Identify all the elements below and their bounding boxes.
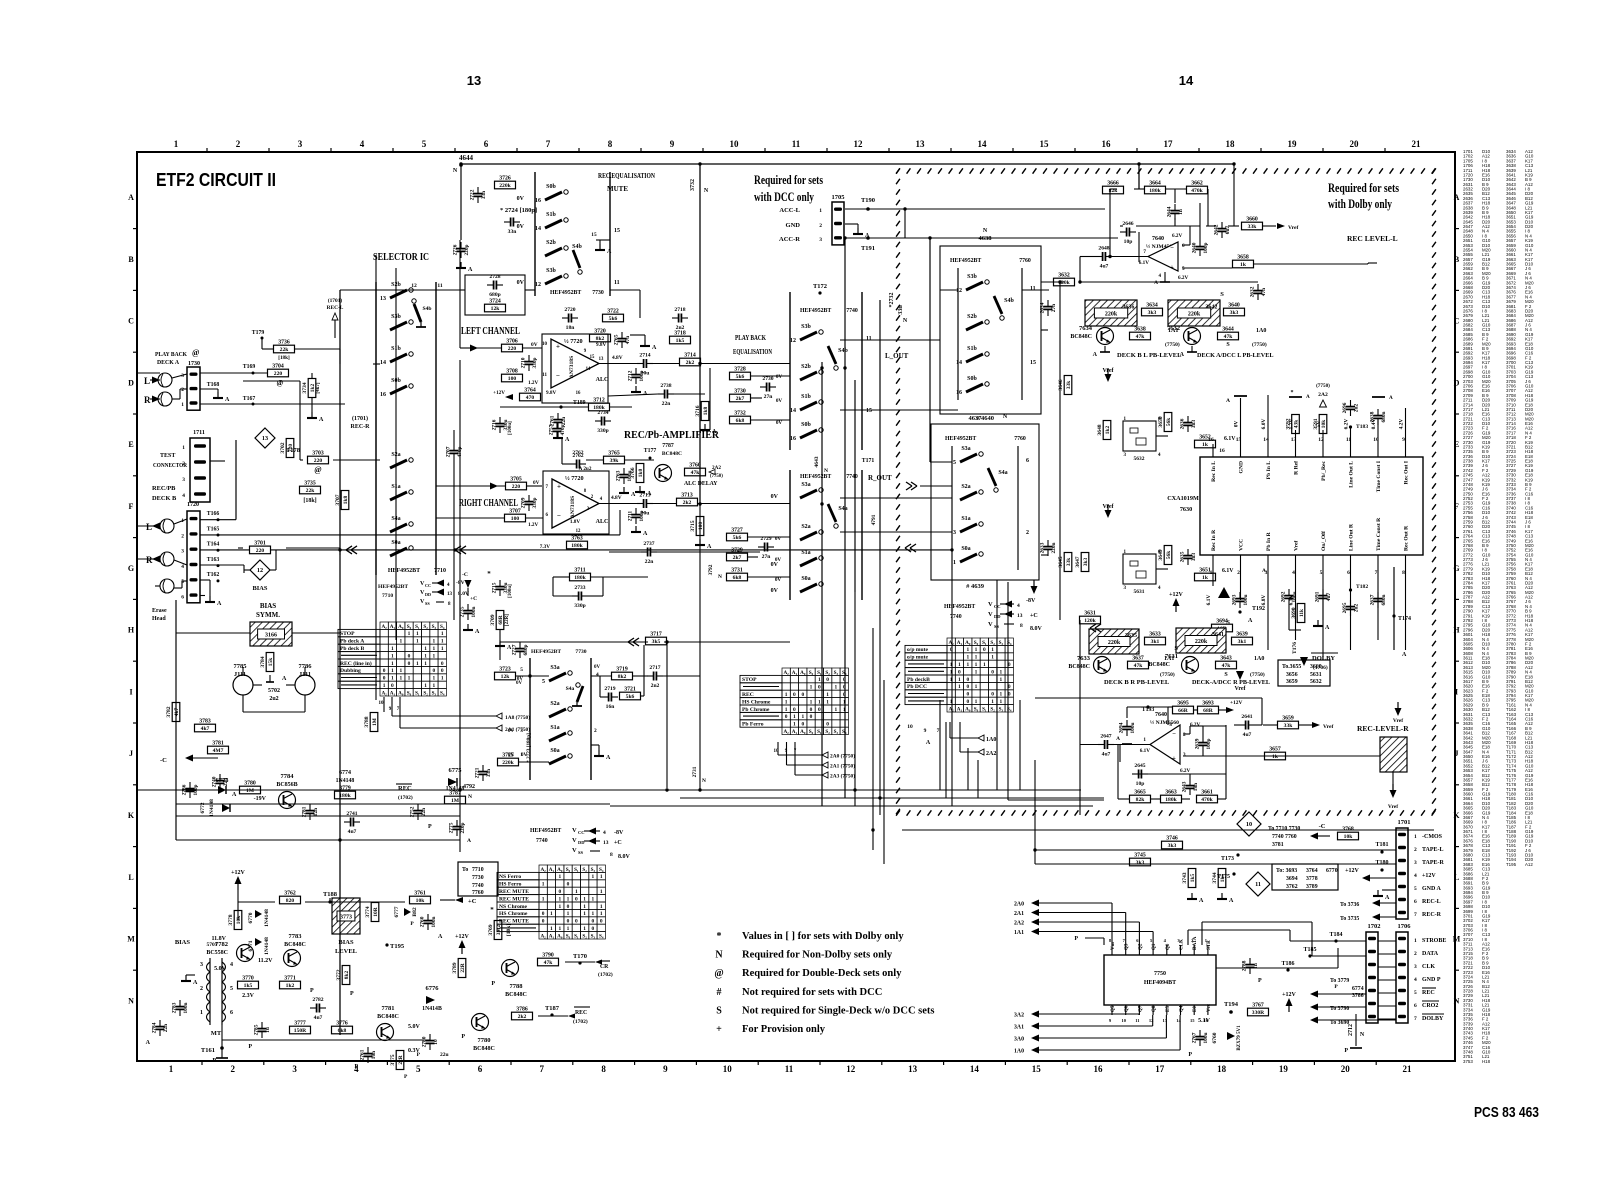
svg-text:2: 2 xyxy=(182,461,185,467)
svg-text:R_OUT: R_OUT xyxy=(868,474,892,482)
svg-text:S₂: S₂ xyxy=(582,867,587,873)
verticals below 4637 bank xyxy=(939,700,941,790)
svg-text:ALC: ALC xyxy=(596,377,609,383)
cap 2733 330p xyxy=(578,592,580,601)
hatched pot 3641 xyxy=(1176,628,1226,653)
svg-text:3M2: 3M2 xyxy=(496,924,502,935)
svg-text:1: 1 xyxy=(416,661,419,667)
play head L deck B xyxy=(160,519,174,533)
resistor 3725 220k xyxy=(498,758,519,766)
svg-text:S1a: S1a xyxy=(550,725,559,731)
svg-text:8.0V: 8.0V xyxy=(1030,626,1043,632)
svg-text:22k: 22k xyxy=(280,347,290,353)
svg-text:0: 0 xyxy=(966,684,969,690)
svg-text:7: 7 xyxy=(937,728,940,734)
svg-text:12: 12 xyxy=(1149,1018,1154,1023)
svg-text:1720: 1720 xyxy=(187,502,199,508)
svg-text:22n: 22n xyxy=(645,559,655,565)
svg-text:A₂: A₂ xyxy=(540,933,546,939)
cap 2643b 18n xyxy=(1186,785,1195,787)
svg-text:1: 1 xyxy=(433,639,436,645)
svg-text:3635: 3635 xyxy=(1125,633,1137,639)
svg-text:5: 5 xyxy=(422,139,427,149)
svg-text:180k: 180k xyxy=(571,543,583,549)
switch S0b mute xyxy=(545,192,562,200)
switch S4a mid xyxy=(577,686,583,702)
svg-text:1: 1 xyxy=(958,662,961,668)
svg-text:330p: 330p xyxy=(597,428,609,434)
svg-text:A: A xyxy=(468,267,473,273)
wires osc xyxy=(1156,435,1168,437)
svg-text:2643: 2643 xyxy=(1182,781,1188,792)
svg-text:8k2: 8k2 xyxy=(344,971,350,980)
svg-text:A: A xyxy=(128,193,134,202)
svg-text:R Ref: R Ref xyxy=(1294,461,1300,475)
svg-text:1: 1 xyxy=(424,653,427,659)
svg-text:RIGHT CHANNEL: RIGHT CHANNEL xyxy=(459,498,518,509)
svg-text:2A1 (7750): 2A1 (7750) xyxy=(505,726,530,733)
svg-text:2712: 2712 xyxy=(628,370,634,381)
svg-text:1N414B: 1N414B xyxy=(422,1006,442,1012)
svg-text:0V: 0V xyxy=(1234,421,1240,428)
svg-text:0: 0 xyxy=(542,911,545,917)
svg-text:1: 1 xyxy=(174,139,179,149)
svg-text:A: A xyxy=(1454,193,1460,202)
svg-text:12k: 12k xyxy=(501,674,511,680)
mute bank rails 7730 xyxy=(534,172,536,296)
svg-text:Time Const I: Time Const I xyxy=(1376,461,1382,492)
svg-text:Vref: Vref xyxy=(1102,368,1114,374)
svg-text:+12V: +12V xyxy=(455,934,469,940)
svg-text:G: G xyxy=(128,564,134,573)
arrow up to REC-L xyxy=(334,320,336,338)
svg-text:1: 1 xyxy=(600,904,603,910)
svg-text:BC848C: BC848C xyxy=(1148,662,1170,668)
resistor 3736 22k xyxy=(274,345,295,353)
svg-text:9: 9 xyxy=(924,728,927,734)
svg-text:1: 1 xyxy=(1414,834,1417,840)
svg-text:P: P xyxy=(310,988,314,994)
svg-text:4k7: 4k7 xyxy=(174,708,180,717)
svg-text:J111: J111 xyxy=(234,671,246,678)
svg-text:* 2723 [180p]: * 2723 [180p] xyxy=(526,733,532,763)
svg-text:1: 1 xyxy=(1414,938,1417,944)
svg-text:S₀: S₀ xyxy=(566,933,571,939)
svg-text:3646: 3646 xyxy=(1058,379,1064,390)
svg-text:K: K xyxy=(128,811,135,820)
svg-text:DOLBY: DOLBY xyxy=(1422,1016,1444,1022)
transistor 7783 BC848C xyxy=(284,950,301,967)
svg-text:3703: 3703 xyxy=(312,451,324,457)
svg-text:T174: T174 xyxy=(1398,616,1411,622)
svg-text:3664: 3664 xyxy=(1149,181,1161,187)
svg-text:47u: 47u xyxy=(625,336,631,344)
svg-text:6.2V: 6.2V xyxy=(1180,768,1190,774)
svg-text:10n: 10n xyxy=(371,1051,377,1059)
svg-text:A: A xyxy=(643,531,648,537)
wires deck A to 1730 xyxy=(172,374,187,378)
svg-text:15: 15 xyxy=(1236,437,1242,443)
svg-text:120k: 120k xyxy=(1084,618,1096,624)
svg-text:1k0: 1k0 xyxy=(638,469,644,478)
svg-text:+12V: +12V xyxy=(231,870,245,876)
svg-text:12: 12 xyxy=(956,288,962,294)
svg-text:S₂: S₂ xyxy=(423,624,428,630)
svg-text:To.3655: To.3655 xyxy=(1282,664,1301,670)
svg-text:2728: 2728 xyxy=(489,274,500,280)
svg-text:3k3: 3k3 xyxy=(1136,860,1145,866)
svg-text:T166: T166 xyxy=(207,511,220,517)
svg-text:CLK: CLK xyxy=(1180,939,1185,950)
svg-text:2720: 2720 xyxy=(564,307,575,313)
svg-text:1: 1 xyxy=(819,208,822,214)
svg-text:7710: 7710 xyxy=(472,867,484,873)
resistor 3665b 82k xyxy=(1130,795,1151,803)
svg-text:1: 1 xyxy=(826,692,829,698)
resistor 3734 1k2 vertical xyxy=(308,379,316,398)
svg-text:3713: 3713 xyxy=(681,493,693,499)
svg-text:2A2: 2A2 xyxy=(986,751,996,757)
switch S0a 4637 xyxy=(960,554,977,562)
svg-text:0: 0 xyxy=(441,661,444,667)
svg-text:0V: 0V xyxy=(776,398,783,404)
svg-text:6: 6 xyxy=(230,1010,233,1016)
svg-text:+: + xyxy=(716,1024,722,1035)
svg-text:Pb/_Rec: Pb/_Rec xyxy=(1321,460,1327,480)
svg-text:N: N xyxy=(128,996,134,1005)
svg-text:0: 0 xyxy=(383,668,386,674)
svg-text:P: P xyxy=(428,824,432,830)
resistor 3781 4M7 xyxy=(208,746,229,754)
svg-text:BIAS: BIAS xyxy=(338,939,354,946)
resistor 3659 33k xyxy=(1278,721,1299,729)
svg-text:220k: 220k xyxy=(1195,639,1208,645)
svg-text:4643: 4643 xyxy=(814,456,820,467)
svg-text:S4b: S4b xyxy=(838,348,848,354)
svg-text:-8V: -8V xyxy=(614,830,624,836)
svg-text:1: 1 xyxy=(592,911,595,917)
svg-text:82k: 82k xyxy=(1136,797,1146,803)
svg-text:0: 0 xyxy=(575,896,578,902)
svg-text:1: 1 xyxy=(785,692,788,698)
svg-text:4637: 4637 xyxy=(969,415,983,422)
resistor 3722 5k6 xyxy=(603,314,624,322)
svg-text:S₂: S₂ xyxy=(582,933,587,939)
svg-text:3731: 3731 xyxy=(731,568,743,574)
svg-text:27n: 27n xyxy=(1051,304,1057,312)
switch S1b 4638 xyxy=(966,354,983,362)
svg-text:12: 12 xyxy=(535,282,541,288)
svg-text:1A0: 1A0 xyxy=(986,737,996,743)
svg-text:T185: T185 xyxy=(1303,947,1316,953)
svg-text:3638: 3638 xyxy=(1134,327,1146,333)
svg-text:1: 1 xyxy=(441,631,444,637)
svg-text:3690: 3690 xyxy=(1291,607,1297,618)
svg-text:1: 1 xyxy=(542,896,545,902)
svg-text:1: 1 xyxy=(182,445,185,451)
+12V osc xyxy=(1173,598,1180,606)
svg-text:3k3: 3k3 xyxy=(1148,310,1157,316)
svg-text:3769: 3769 xyxy=(488,924,494,935)
svg-text:P: P xyxy=(354,1064,358,1070)
L_OUT bank rect xyxy=(789,292,791,450)
svg-text:7783: 7783 xyxy=(289,933,303,940)
svg-text:S₀: S₀ xyxy=(974,706,979,712)
svg-text:1: 1 xyxy=(558,926,561,932)
svg-text:B: B xyxy=(1454,255,1460,264)
svg-text:1n: 1n xyxy=(1178,209,1184,215)
svg-text:7750: 7750 xyxy=(1154,971,1166,977)
svg-text:@: @ xyxy=(277,378,284,387)
svg-text:47k: 47k xyxy=(1224,334,1234,340)
svg-text:Vref: Vref xyxy=(1294,541,1300,551)
svg-text:B: B xyxy=(128,255,134,264)
svg-text:6.1V: 6.1V xyxy=(1139,260,1149,266)
vertical trunk 3732 xyxy=(699,164,701,430)
svg-text:S₃: S₃ xyxy=(834,670,839,676)
cap 2647 4u7 xyxy=(1104,740,1106,749)
+12V arrow right xyxy=(1219,709,1226,711)
svg-text:0.4V: 0.4V xyxy=(1371,419,1377,430)
cap 2691 4u7 xyxy=(1319,595,1328,597)
hatched box 3773 BIAS LEVEL xyxy=(332,898,360,934)
cap 2775 220p xyxy=(453,826,462,828)
svg-text:6: 6 xyxy=(484,139,489,149)
svg-text:A: A xyxy=(1116,736,1120,742)
svg-text:4: 4 xyxy=(603,830,606,836)
svg-text:16: 16 xyxy=(380,392,386,398)
svg-text:#: # xyxy=(717,987,722,998)
svg-text:Head: Head xyxy=(152,616,166,622)
wires rec cluster xyxy=(586,459,603,461)
svg-text:12: 12 xyxy=(576,529,581,534)
left bottom buses xyxy=(176,803,610,805)
svg-text:Pb deck B: Pb deck B xyxy=(340,646,365,652)
svg-text:6774: 6774 xyxy=(1352,986,1364,992)
svg-text:1N4148: 1N4148 xyxy=(209,799,215,817)
svg-text:A₂: A₂ xyxy=(948,640,954,646)
svg-text:1: 1 xyxy=(835,685,838,691)
svg-text:4.8V: 4.8V xyxy=(612,355,623,361)
svg-text:0: 0 xyxy=(991,669,994,675)
svg-text:L: L xyxy=(1454,873,1459,882)
svg-text:10p: 10p xyxy=(1136,781,1145,787)
svg-text:11: 11 xyxy=(542,373,547,378)
svg-text:16: 16 xyxy=(1102,139,1112,149)
svg-text:3736: 3736 xyxy=(278,340,290,346)
svg-text:10p: 10p xyxy=(1124,239,1133,245)
svg-text:1: 1 xyxy=(793,714,796,720)
svg-text:A₁: A₁ xyxy=(957,706,963,712)
svg-text:6774: 6774 xyxy=(339,770,351,776)
svg-text:T169: T169 xyxy=(243,364,256,370)
svg-text:2640: 2640 xyxy=(1192,242,1198,253)
svg-text:BIAS: BIAS xyxy=(253,585,268,592)
switch S1a xyxy=(390,492,407,500)
svg-text:PLAY BACK: PLAY BACK xyxy=(735,334,766,342)
cap 2709 330p xyxy=(525,501,534,503)
svg-text:150R: 150R xyxy=(294,1028,307,1034)
svg-text:2n2: 2n2 xyxy=(651,683,660,689)
svg-text:2785: 2785 xyxy=(254,1024,260,1035)
svg-text:A₀: A₀ xyxy=(557,867,563,873)
svg-text:1: 1 xyxy=(953,560,956,566)
svg-text:10: 10 xyxy=(1373,437,1379,443)
svg-text:1: 1 xyxy=(391,653,394,659)
resistor 3718 1k5 xyxy=(670,336,691,344)
svg-text:3732: 3732 xyxy=(734,411,746,417)
svg-text:5k6: 5k6 xyxy=(609,316,618,322)
svg-text:T178: T178 xyxy=(286,447,301,454)
transistor 7780 BC848C xyxy=(472,1014,489,1031)
svg-text:16: 16 xyxy=(1204,1018,1209,1023)
cap 2692 100u xyxy=(1285,595,1294,597)
resistor 3735 22k xyxy=(300,486,321,494)
svg-text:0: 0 xyxy=(542,919,545,925)
svg-text:3784: 3784 xyxy=(260,656,266,667)
svg-text:1k: 1k xyxy=(1202,575,1209,581)
svg-text:10: 10 xyxy=(1246,821,1252,828)
svg-text:8: 8 xyxy=(1402,570,1405,576)
svg-text:0: 0 xyxy=(600,919,603,925)
svg-text:[100u]: [100u] xyxy=(508,421,513,435)
svg-text:3789: 3789 xyxy=(1306,884,1318,890)
resistor 3720 8k2 xyxy=(590,334,611,342)
svg-text:ALC DELAY: ALC DELAY xyxy=(684,481,718,487)
svg-text:S4b: S4b xyxy=(422,306,431,312)
To 7710 7730 7740 7760 box xyxy=(458,862,498,896)
svg-text:To: 3693: To: 3693 xyxy=(1276,868,1297,874)
svg-text:0: 0 xyxy=(575,919,578,925)
svg-text:* 2724 [180p]: * 2724 [180p] xyxy=(500,207,537,214)
resistor 3637 47k xyxy=(1128,661,1149,669)
svg-text:P: P xyxy=(350,991,354,997)
svg-text:BC848C: BC848C xyxy=(284,942,306,948)
svg-text:0: 0 xyxy=(966,677,969,683)
svg-text:14: 14 xyxy=(1176,1018,1181,1023)
svg-text:STOP: STOP xyxy=(340,631,355,637)
svg-text:T161: T161 xyxy=(201,1047,215,1054)
hatched pot 3635 xyxy=(1089,629,1139,654)
svg-text:1711: 1711 xyxy=(193,430,205,436)
resistor 3649 56k vertical xyxy=(1164,546,1172,565)
svg-text:2: 2 xyxy=(231,1064,236,1074)
svg-text:7785: 7785 xyxy=(234,663,248,670)
svg-text:3753: 3753 xyxy=(1463,1059,1473,1064)
svg-text:A 2u2: A 2u2 xyxy=(579,466,592,472)
svg-text:2: 2 xyxy=(1237,570,1240,576)
svg-text:B82: B82 xyxy=(412,907,418,916)
svg-text:6.0V: 6.0V xyxy=(1261,419,1267,430)
wires NJM R xyxy=(1114,744,1150,746)
resistor 3765 39k xyxy=(604,456,625,464)
svg-text:56k: 56k xyxy=(1166,418,1172,426)
svg-text:I: I xyxy=(129,687,132,696)
svg-text:T163: T163 xyxy=(207,557,220,563)
svg-text:0: 0 xyxy=(408,661,411,667)
svg-text:0: 0 xyxy=(810,714,813,720)
svg-text:3662: 3662 xyxy=(1191,181,1203,187)
svg-text:1M: 1M xyxy=(372,718,378,726)
svg-text:(1701): (1701) xyxy=(352,415,368,422)
resistor 3711 180k xyxy=(570,573,591,581)
svg-text:1M: 1M xyxy=(246,788,255,794)
transistor 7631 BC848C xyxy=(1182,657,1199,674)
svg-text:2783: 2783 xyxy=(172,1002,178,1013)
svg-text:7740: 7740 xyxy=(536,838,548,844)
svg-text:15: 15 xyxy=(614,228,620,234)
svg-text:1A0: 1A0 xyxy=(1256,328,1266,334)
svg-text:2: 2 xyxy=(200,986,203,992)
svg-text:1: 1 xyxy=(399,639,402,645)
svg-text:18: 18 xyxy=(1217,1064,1227,1074)
svg-text:2757: 2757 xyxy=(549,424,555,435)
switch S1b mute xyxy=(545,220,562,228)
svg-text:3728: 3728 xyxy=(734,367,746,373)
svg-text:3771: 3771 xyxy=(284,976,296,982)
switch S0a mid xyxy=(549,756,566,764)
arrows 2A0/2A1/2A3 xyxy=(777,742,779,755)
svg-text:220k: 220k xyxy=(1108,640,1121,646)
svg-text:A: A xyxy=(1262,568,1266,574)
FET wiring xyxy=(176,632,250,634)
svg-text:4644: 4644 xyxy=(459,154,474,162)
cap 2633 220n xyxy=(1044,546,1053,548)
svg-text:o/p mute: o/p mute xyxy=(907,647,928,653)
svg-text:*: * xyxy=(1291,390,1294,396)
svg-text:A: A xyxy=(607,249,612,255)
svg-text:1: 1 xyxy=(975,699,978,705)
transistor 7788 BC848C xyxy=(502,960,519,977)
svg-text:D: D xyxy=(1454,378,1460,387)
svg-text:1: 1 xyxy=(1000,692,1003,698)
svg-text:3642: 3642 xyxy=(1205,304,1217,310)
svg-text:REC: REC xyxy=(575,1010,587,1016)
svg-text:[100u]: [100u] xyxy=(508,584,513,598)
resistor 3644 47k xyxy=(1218,332,1239,340)
svg-text:2639: 2639 xyxy=(1195,738,1201,749)
svg-text:AN7318S: AN7318S xyxy=(569,356,575,378)
svg-text:1: 1 xyxy=(991,655,994,661)
svg-text:2731: 2731 xyxy=(692,766,698,777)
svg-text:180k: 180k xyxy=(339,793,351,799)
svg-text:DD: DD xyxy=(994,614,1001,619)
svg-text:13: 13 xyxy=(1017,613,1023,619)
svg-text:T173: T173 xyxy=(1221,856,1234,862)
svg-text:1: 1 xyxy=(399,676,402,682)
svg-text:33k: 33k xyxy=(1066,381,1072,389)
svg-text:1k: 1k xyxy=(1240,262,1247,268)
triangle NJM6560 xyxy=(1150,725,1180,764)
svg-text:A: A xyxy=(1093,352,1098,358)
svg-text:22u: 22u xyxy=(561,417,567,425)
svg-text:R: R xyxy=(144,395,151,405)
svg-text:2u2: 2u2 xyxy=(1354,404,1360,413)
svg-text:3746: 3746 xyxy=(1166,836,1178,842)
switch S4b 4638 xyxy=(994,296,1002,314)
output wire left xyxy=(599,363,640,365)
svg-text:6.1V: 6.1V xyxy=(1206,595,1212,606)
resistors 3727/3729/3731 pb eq R xyxy=(727,533,748,541)
svg-text:S4b: S4b xyxy=(572,244,582,250)
svg-text:47k: 47k xyxy=(544,960,554,966)
cap 2780 22u xyxy=(426,1040,435,1042)
svg-text:2712: 2712 xyxy=(1348,1024,1354,1036)
svg-text:1706: 1706 xyxy=(1398,923,1412,930)
wires 7750 to connectors xyxy=(1187,930,1189,945)
resistor 3633 3k1 xyxy=(1145,637,1166,645)
svg-text:3789: 3789 xyxy=(452,962,458,973)
